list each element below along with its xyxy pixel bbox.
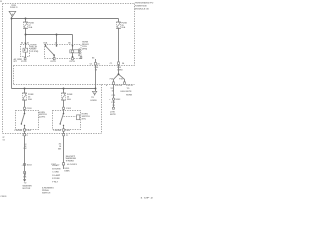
svg-text:4 G301: 4 G301 xyxy=(67,163,78,166)
svg-text:1 OF 2: 1 OF 2 xyxy=(140,197,154,199)
svg-text:C1: C1 xyxy=(66,135,68,137)
svg-text:C1: C1 xyxy=(26,135,28,137)
svg-text:BK: BK xyxy=(24,148,28,150)
svg-text:C303: C303 xyxy=(27,108,33,110)
svg-text:(RT): (RT) xyxy=(82,118,86,120)
svg-text:OF IPM): OF IPM) xyxy=(30,51,38,53)
svg-text:X2 18: X2 18 xyxy=(50,61,56,63)
svg-text:FUSE 31: FUSE 31 xyxy=(10,7,18,9)
svg-text:BK: BK xyxy=(23,176,27,178)
svg-text:86: 86 xyxy=(21,42,23,44)
svg-text:2 HORN: 2 HORN xyxy=(53,130,61,132)
svg-text:MOTOR: MOTOR xyxy=(23,188,31,190)
svg-text:HIGH NOTE: HIGH NOTE xyxy=(121,91,133,93)
svg-text:S303: S303 xyxy=(27,164,33,166)
svg-text:20A: 20A xyxy=(28,98,32,101)
svg-text:POWER MOD: POWER MOD xyxy=(135,6,147,8)
svg-text:TRIM: TRIM xyxy=(66,160,74,162)
svg-text:A BATT: A BATT xyxy=(52,164,60,167)
svg-text:1: 1 xyxy=(22,135,23,137)
svg-text:C303: C303 xyxy=(65,130,71,132)
svg-text:18BK: 18BK xyxy=(64,170,70,172)
svg-text:20A: 20A xyxy=(67,98,71,101)
svg-text:18: 18 xyxy=(27,42,29,44)
svg-text:C2001: C2001 xyxy=(0,196,7,198)
svg-text:X3 18: X3 18 xyxy=(69,61,75,63)
svg-text:BK: BK xyxy=(58,149,62,151)
svg-text:18RD: 18RD xyxy=(117,69,123,71)
svg-text:SWITCH: SWITCH xyxy=(42,192,51,194)
svg-text:20A: 20A xyxy=(28,26,32,29)
svg-text:C303: C303 xyxy=(26,130,32,132)
svg-text:*INTEGRATED PO: *INTEGRATED PO xyxy=(135,2,154,5)
svg-text:20A: 20A xyxy=(121,26,125,29)
svg-text:TO: TO xyxy=(127,88,130,90)
svg-text:2 HORN: 2 HORN xyxy=(14,130,22,132)
svg-text:(LEFT): (LEFT) xyxy=(39,117,46,119)
svg-text:B HORN: B HORN xyxy=(52,168,61,170)
svg-text:S302: S302 xyxy=(115,99,121,101)
svg-text:HORN: HORN xyxy=(90,100,97,102)
svg-text:(IPM): (IPM) xyxy=(82,49,87,51)
svg-text:C GRD: C GRD xyxy=(52,172,59,174)
svg-text:87A: 87A xyxy=(43,42,47,45)
svg-text:NOTE: NOTE xyxy=(110,114,116,116)
svg-text:MODULE 30: MODULE 30 xyxy=(135,9,150,11)
svg-text:X3 18: X3 18 xyxy=(21,61,27,63)
svg-text:E FUSE: E FUSE xyxy=(52,178,60,180)
svg-text:C303: C303 xyxy=(66,108,72,110)
svg-text:F35 18: F35 18 xyxy=(126,85,133,87)
svg-text:HORN: HORN xyxy=(126,94,133,96)
svg-text:D LAMP: D LAMP xyxy=(52,174,61,177)
svg-text:F RLY: F RLY xyxy=(52,182,58,184)
svg-text:1: 1 xyxy=(24,42,25,44)
